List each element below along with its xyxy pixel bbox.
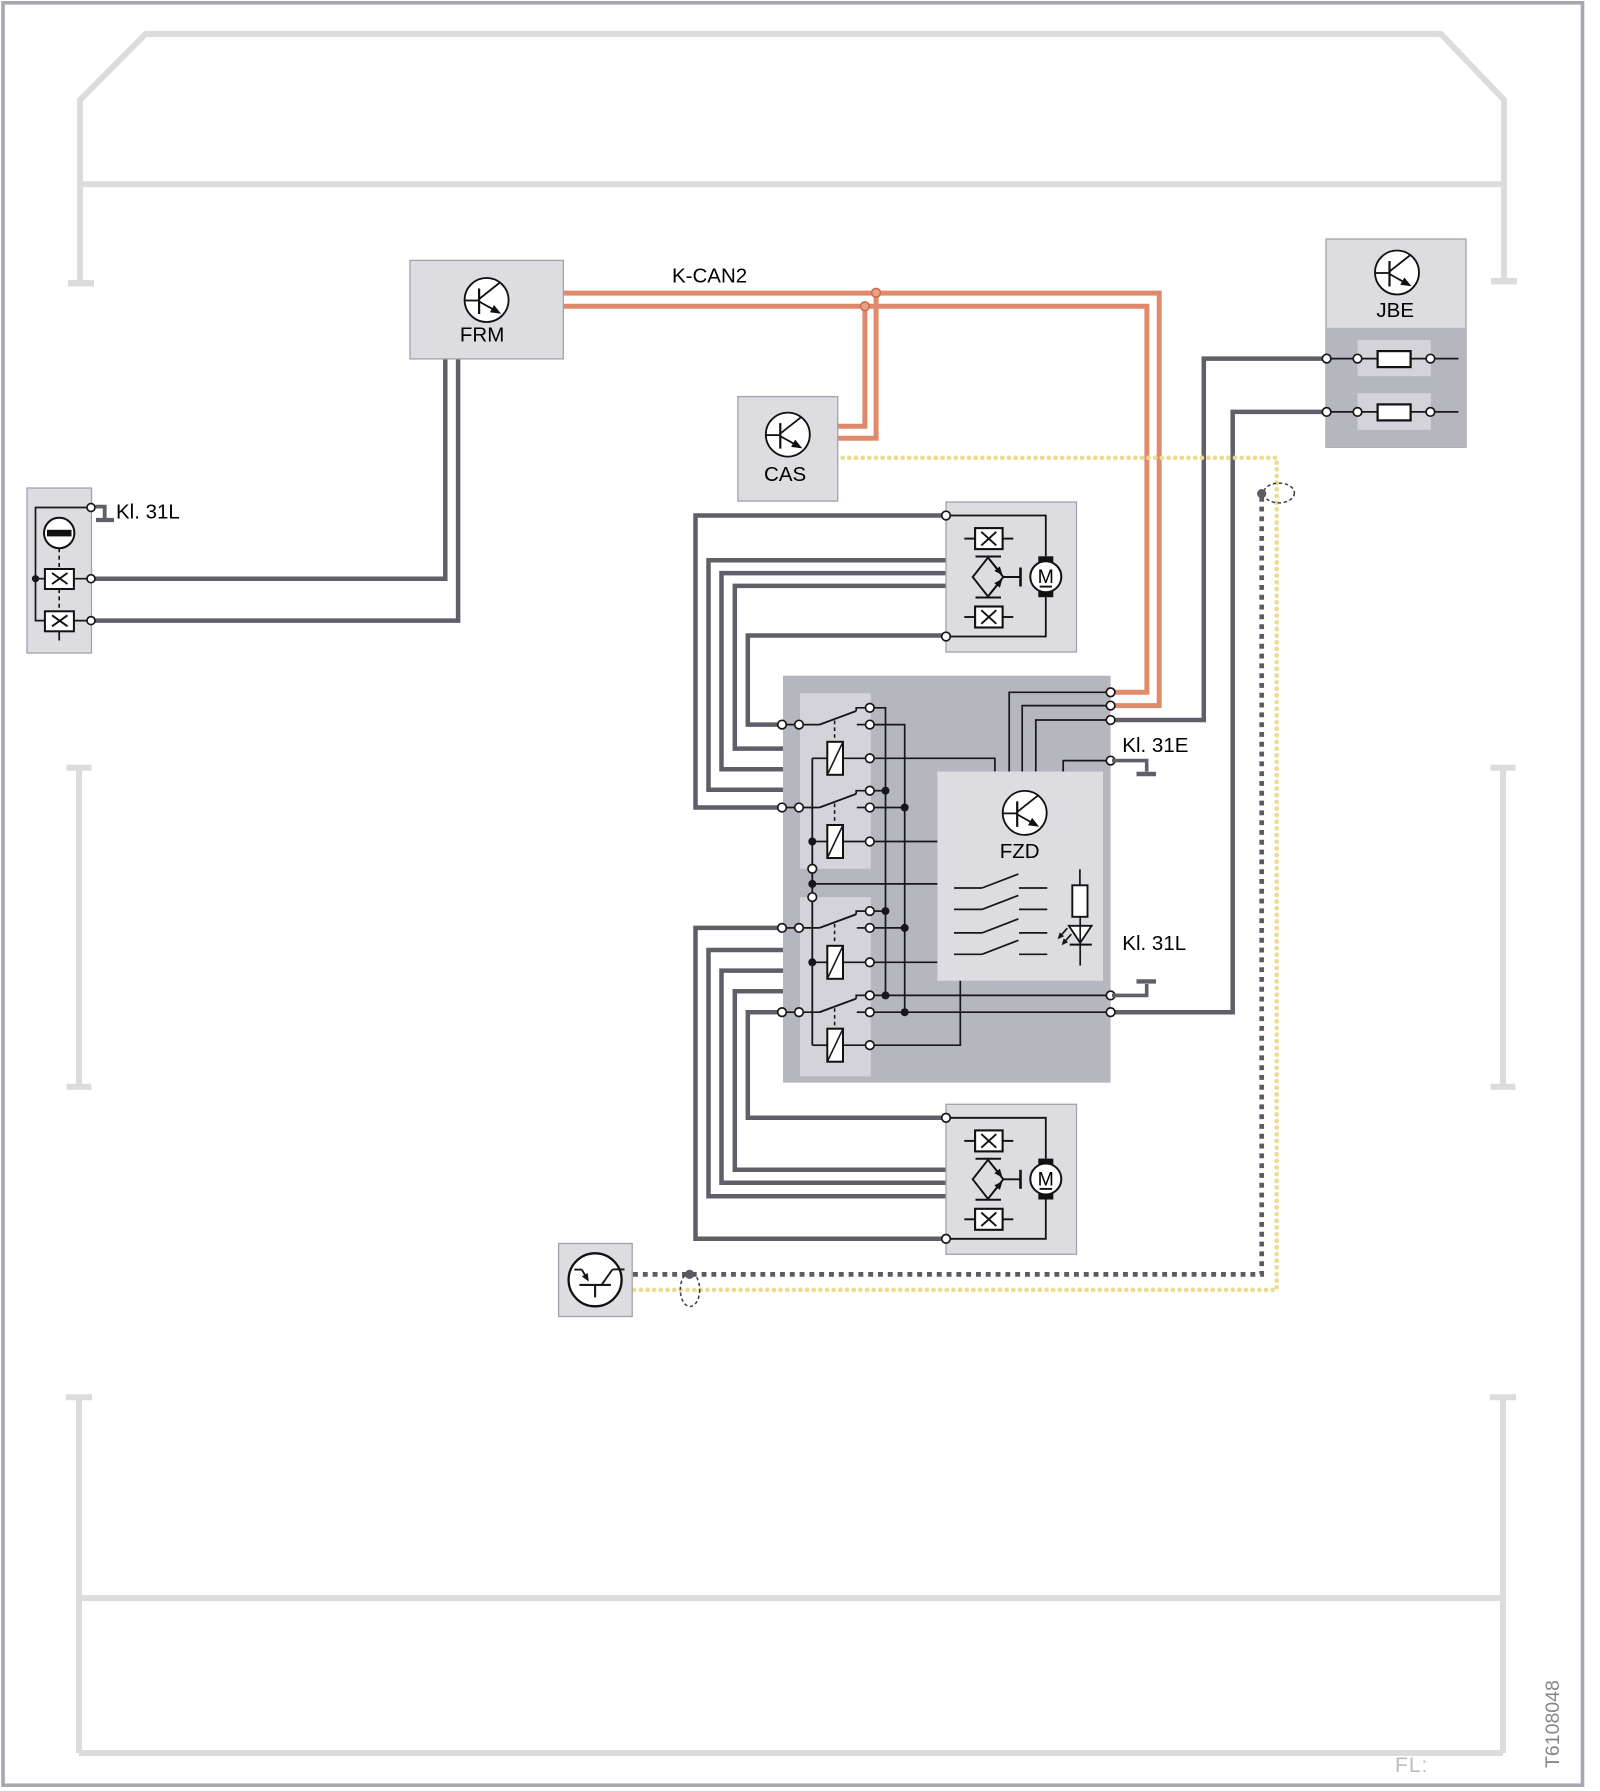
splice connector top bbox=[1264, 483, 1295, 503]
wire K-CAN2 line A bbox=[563, 293, 1159, 705]
svg-text:FL:: FL: bbox=[1395, 1754, 1428, 1777]
control unit JBE symbol bbox=[1375, 251, 1419, 295]
FZD coil 2 feed bbox=[874, 841, 937, 843]
FZD internal wire to supply bbox=[1036, 720, 1111, 772]
FZD LED arrows bbox=[1061, 928, 1068, 936]
car outline left pillar foot bbox=[68, 280, 94, 287]
dashed link 2 bbox=[58, 589, 60, 611]
svg-text:JBE: JBE bbox=[1376, 299, 1414, 322]
FZD bus 2 bbox=[874, 725, 905, 1013]
FZD coil 1 feed bbox=[874, 758, 995, 771]
fuse 1 link bbox=[1327, 358, 1458, 360]
FZD bus 1 bbox=[874, 708, 886, 996]
FZD relay coil 4 bbox=[812, 1044, 827, 1046]
wire K-CAN2 branch to CAS lower bbox=[838, 293, 876, 438]
wire FZD lead to bottom mirror lead 3 bbox=[722, 971, 947, 1183]
FZD internal switch bank bbox=[954, 887, 982, 889]
svg-text:T6108048: T6108048 bbox=[1542, 1680, 1564, 1768]
wire JBE fuse 1 to FZD supply bbox=[1111, 359, 1327, 720]
FZD coil rail bbox=[811, 758, 813, 1045]
FZD contact feed 2b bbox=[874, 807, 905, 809]
FZD bus 2 junctions bbox=[901, 804, 909, 812]
svg-text:K-CAN2: K-CAN2 bbox=[672, 264, 747, 287]
FZD housing bbox=[783, 676, 1111, 1083]
sensor symbol bbox=[569, 1253, 622, 1306]
splice dot top bbox=[1257, 489, 1266, 498]
battery component terminals bbox=[87, 504, 95, 512]
control unit CAS box bbox=[738, 397, 838, 502]
control unit CAS symbol bbox=[766, 413, 810, 457]
wire FZD lead to bottom mirror lead 2 bbox=[709, 950, 947, 1196]
ground Kl. 31E bbox=[1112, 761, 1147, 772]
FZD switch 3 bbox=[786, 927, 795, 929]
junction K-CAN2 line B bbox=[861, 302, 870, 311]
wire FRM to mirror switch feed 2 bbox=[91, 358, 458, 621]
svg-text:Kl. 31L: Kl. 31L bbox=[1122, 932, 1186, 955]
wire top mirror lead 4 bbox=[735, 586, 946, 749]
wire JBE fuse 2 to FZD supply bbox=[1111, 412, 1327, 1012]
FZD relay coil 3 bbox=[812, 961, 827, 963]
svg-text:Kl. 31E: Kl. 31E bbox=[1122, 734, 1188, 757]
FZD contact feed 3b bbox=[874, 927, 905, 929]
FZD switch 1 bbox=[786, 724, 795, 726]
wire top mirror lead 2 bbox=[709, 560, 947, 790]
wire sensor dashed gray bbox=[633, 496, 1262, 1274]
wire top mirror lead 3 bbox=[722, 573, 947, 769]
car outline beltline bbox=[80, 181, 1504, 187]
fuse element X1 bbox=[45, 569, 74, 589]
bottom mirror motor assembly bbox=[942, 1104, 1077, 1254]
control unit JBE box bbox=[1326, 239, 1466, 447]
top mirror motor assembly bbox=[942, 502, 1077, 652]
car outline right sill post bbox=[1491, 768, 1516, 1087]
FZD switch 4 bbox=[786, 1011, 795, 1013]
FZD coil rail to control box bbox=[812, 883, 937, 885]
fuse 1 bbox=[1378, 351, 1411, 367]
wire K-CAN2 branch to CAS upper bbox=[838, 306, 865, 426]
splice dot bottom bbox=[685, 1270, 694, 1279]
battery component junction bbox=[32, 575, 39, 582]
FZD control symbol bbox=[1003, 791, 1047, 835]
svg-text:Kl. 31L: Kl. 31L bbox=[116, 501, 180, 524]
FZD output to JBE fuse 2 bbox=[874, 1011, 1111, 1013]
ground Kl. 31L bbox=[1112, 984, 1147, 995]
FZD relay coil 1 bbox=[812, 757, 827, 759]
FZD bus 1 junctions bbox=[882, 787, 890, 795]
FZD LED bbox=[1069, 926, 1092, 943]
dashed link 1 bbox=[58, 548, 60, 568]
wire signal dotted yellow bbox=[633, 458, 1277, 1290]
sensor box bbox=[559, 1244, 633, 1317]
car outline roof and pillars bbox=[80, 34, 1504, 284]
stub below fuse X2 bbox=[58, 631, 60, 640]
FZD contact feed 2a bbox=[874, 790, 886, 792]
wire FZD lead to bottom mirror lead 4 bbox=[735, 991, 946, 1169]
FZD resistor bbox=[1079, 869, 1081, 885]
FZD relay box 1 bbox=[800, 693, 871, 869]
fuse 1 terminals bbox=[1322, 354, 1331, 363]
battery component box bbox=[27, 488, 92, 653]
fuse holder 1 bbox=[1358, 340, 1431, 376]
svg-text:FZD: FZD bbox=[1000, 840, 1040, 863]
fuse holder 2 bbox=[1358, 393, 1431, 430]
battery component internal wiring bbox=[36, 508, 92, 621]
junction K-CAN2 line A bbox=[872, 288, 881, 297]
control unit FRM symbol bbox=[465, 278, 509, 322]
FZD contact feed 3a bbox=[874, 910, 886, 912]
car outline right pillar foot bbox=[1491, 278, 1517, 285]
FZD inner control box bbox=[937, 772, 1103, 981]
FZD right terminals bbox=[1106, 688, 1115, 697]
FZD relay box 2 bbox=[800, 897, 871, 1076]
wire top mirror terminal 1 to FZD input 2 bbox=[696, 516, 947, 808]
svg-text:FRM: FRM bbox=[460, 323, 504, 346]
FZD coil 4 feed bbox=[874, 981, 960, 1045]
FZD internal wire to Kl31E bbox=[1063, 761, 1110, 772]
FZD relay coil 2 bbox=[812, 841, 827, 843]
fuse element X2 bbox=[45, 611, 74, 631]
FZD internal wire to K-CAN B bbox=[1022, 706, 1110, 772]
car outline rear section bbox=[66, 1397, 1516, 1753]
wire FRM to mirror switch feed 1 bbox=[91, 358, 445, 579]
wire K-CAN2 line B bbox=[563, 306, 1147, 692]
FZD coil rail junctions bbox=[808, 838, 816, 846]
wire FZD input 3 to bottom mirror terminal 2 bbox=[696, 928, 947, 1239]
FZD coil 3 feed bbox=[874, 961, 937, 963]
FZD switch 2 bbox=[786, 807, 795, 809]
wire top mirror terminal 2 to FZD input 1 bbox=[748, 636, 946, 725]
ground Kl. 31L left bbox=[96, 507, 105, 518]
wire FZD input 4 to bottom mirror terminal 1 bbox=[748, 1012, 946, 1118]
FZD internal wire to K-CAN A bbox=[1009, 692, 1110, 771]
JBE fuse section bbox=[1326, 328, 1466, 448]
fuse 2 link bbox=[1327, 411, 1458, 413]
fuse 2 terminals bbox=[1322, 408, 1331, 417]
minus terminal symbol bbox=[44, 518, 74, 548]
control unit FRM box bbox=[410, 260, 563, 359]
FZD output to Kl31L bbox=[874, 994, 1111, 996]
car outline left sill post bbox=[67, 768, 92, 1087]
FZD coil rail terminals bbox=[808, 865, 817, 874]
fuse 2 bbox=[1378, 404, 1411, 420]
svg-text:CAS: CAS bbox=[764, 463, 806, 486]
splice connector bottom bbox=[680, 1273, 699, 1307]
